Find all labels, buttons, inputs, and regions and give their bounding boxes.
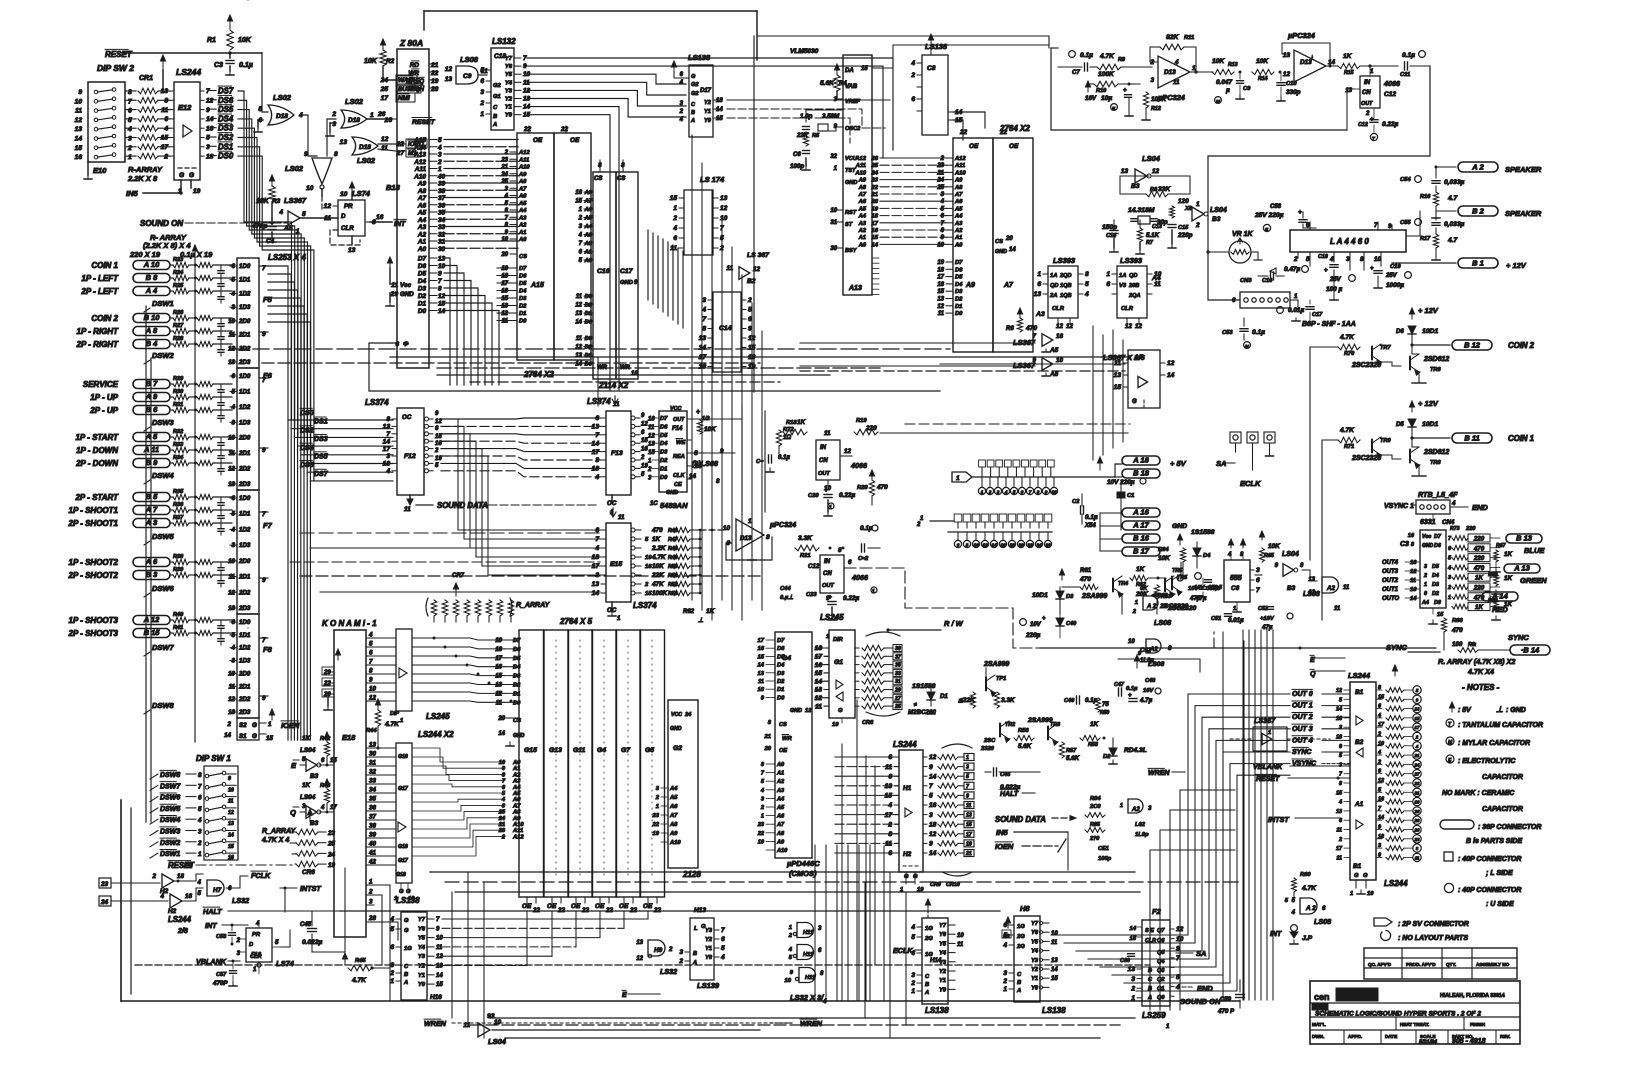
ic 4066 top	[1345, 66, 1401, 108]
ic ROM A9 A7 2764x2	[936, 129, 1033, 352]
svg-text:8: 8	[716, 478, 720, 485]
resistor R44 real	[247, 0, 249, 1]
wire c8 outputs	[953, 112, 985, 140]
svg-text:0.1µ: 0.1µ	[1085, 697, 1098, 704]
svg-text:29: 29	[390, 291, 399, 298]
svg-text:9: 9	[929, 841, 933, 848]
svg-text:RTB_L5_4F: RTB_L5_4F	[1418, 490, 1458, 499]
ic Z80 iorq m1	[396, 139, 427, 157]
svg-text:: 40P CONNECTOR: : 40P CONNECTOR	[1458, 856, 1521, 863]
resistor R6 470	[1006, 308, 1037, 332]
svg-text:B3: B3	[310, 820, 319, 827]
svg-text:4: 4	[197, 817, 202, 824]
svg-text:GND: GND	[790, 708, 802, 714]
ic G18 G17 LS244x2	[394, 743, 415, 902]
svg-text:A6: A6	[518, 194, 527, 200]
svg-text:23: 23	[936, 163, 944, 169]
svg-text:A12: A12	[413, 159, 426, 166]
svg-text:11: 11	[938, 311, 945, 317]
svg-text:Y3: Y3	[418, 954, 426, 960]
svg-text:F12: F12	[404, 453, 416, 460]
svg-text:A7: A7	[518, 186, 527, 192]
svg-text:38: 38	[369, 823, 376, 830]
wire rom1 data stubs	[497, 268, 510, 321]
svg-text:14: 14	[592, 440, 600, 447]
svg-text:C12: C12	[808, 563, 820, 570]
wire bottom horizontals 2	[470, 1018, 1135, 1038]
svg-text:15: 15	[758, 654, 765, 660]
svg-text:6: 6	[128, 108, 132, 115]
svg-text:19: 19	[832, 722, 839, 728]
svg-text:LS244: LS244	[1348, 671, 1371, 680]
svg-text:LS139: LS139	[697, 981, 720, 990]
svg-text:A4: A4	[1421, 600, 1429, 606]
svg-text:10: 10	[720, 215, 728, 222]
svg-text:26: 26	[871, 156, 879, 162]
svg-text:0,033µ: 0,033µ	[1444, 221, 1465, 228]
svg-text:D6: D6	[519, 274, 527, 280]
svg-text:1P - RIGHT: 1P - RIGHT	[77, 327, 120, 336]
svg-text:12: 12	[929, 831, 937, 838]
svg-text:L62: L62	[1135, 822, 1146, 828]
svg-text:A12: A12	[512, 834, 524, 840]
ic F7 LS253	[228, 490, 272, 614]
svg-text:4: 4	[320, 805, 325, 811]
svg-text:18: 18	[177, 873, 184, 880]
label LS02 a	[273, 93, 292, 102]
svg-text:A2: A2	[954, 228, 963, 234]
svg-text:4066: 4066	[850, 461, 868, 470]
wire top right link	[754, 36, 1049, 392]
svg-text:17: 17	[592, 449, 600, 456]
svg-text:A: A	[403, 980, 408, 986]
svg-text:A11: A11	[414, 166, 427, 173]
net INTST a	[280, 884, 321, 912]
ic Z80 power	[386, 257, 414, 306]
svg-text:G4: G4	[597, 747, 606, 754]
svg-text:4: 4	[1004, 490, 1008, 495]
svg-text:4.7K: 4.7K	[1339, 334, 1355, 341]
svg-text:A 4: A 4	[145, 286, 158, 295]
svg-text:OUT 4: OUT 4	[1292, 737, 1313, 744]
svg-text:12: 12	[495, 691, 502, 697]
svg-text:G: G	[913, 874, 918, 880]
svg-text:12: 12	[1283, 71, 1291, 78]
resistor R18	[783, 419, 807, 435]
capacitor C23	[806, 587, 877, 620]
svg-text:14: 14	[383, 438, 391, 445]
svg-text:: TANTALUM CAPACITOR: : TANTALUM CAPACITOR	[1458, 722, 1543, 729]
svg-text:20: 20	[323, 692, 331, 698]
svg-text:DSW5: DSW5	[160, 806, 180, 813]
svg-text:C17: C17	[620, 268, 634, 275]
svg-text:VR 1K: VR 1K	[1232, 231, 1254, 238]
svg-text:: GND: : GND	[1506, 707, 1526, 714]
resistor array CR1	[138, 55, 170, 159]
svg-text:IN: IN	[820, 445, 827, 451]
svg-text:A4: A4	[858, 214, 867, 220]
svg-text:10D1: 10D1	[1422, 421, 1438, 428]
svg-text:A5: A5	[776, 805, 785, 811]
svg-text:LS138: LS138	[1042, 1006, 1066, 1015]
svg-text:15: 15	[1336, 790, 1343, 796]
svg-text:A1: A1	[776, 771, 784, 777]
svg-text:R61: R61	[1080, 568, 1092, 574]
resistor fan CR8	[862, 632, 902, 726]
svg-text:13: 13	[592, 581, 600, 588]
svg-text:LS08: LS08	[1148, 661, 1164, 668]
svg-text:10: 10	[369, 686, 376, 693]
svg-text:5: 5	[258, 106, 262, 113]
gate B3 inv e	[291, 747, 337, 780]
svg-text:2: 2	[940, 156, 945, 162]
svg-text:1P - DOWN: 1P - DOWN	[76, 446, 118, 455]
wire e15 band	[290, 533, 600, 592]
svg-text:19: 19	[653, 831, 660, 837]
svg-text:WR: WR	[782, 736, 792, 742]
svg-text:CN: CN	[1362, 90, 1371, 96]
label note 40p U	[1444, 883, 1521, 894]
svg-text:A2: A2	[858, 228, 867, 234]
svg-text:RESET: RESET	[1256, 776, 1280, 783]
net RESET right	[1256, 774, 1350, 783]
svg-text:19: 19	[872, 206, 879, 212]
svg-text:15: 15	[1378, 694, 1385, 700]
svg-text:A4: A4	[1151, 275, 1161, 282]
svg-text:LS08: LS08	[1314, 917, 1331, 926]
net RESET top	[105, 49, 262, 59]
svg-text:4066: 4066	[1383, 79, 1401, 88]
svg-text:13: 13	[1114, 372, 1122, 379]
svg-text:1: 1	[872, 589, 875, 595]
wire f12 to e15	[441, 419, 604, 575]
svg-text:G15: G15	[524, 747, 537, 754]
svg-text:LS138: LS138	[925, 42, 948, 51]
svg-text:S2: S2	[239, 722, 247, 729]
svg-text:6: 6	[848, 559, 852, 566]
svg-text:4: 4	[437, 144, 442, 151]
svg-text:A14: A14	[413, 144, 426, 151]
svg-text:GND: GND	[400, 291, 414, 298]
svg-text:19: 19	[193, 188, 201, 195]
svg-text:13: 13	[161, 88, 169, 95]
svg-text:10: 10	[937, 242, 944, 248]
svg-text:21: 21	[764, 734, 771, 740]
svg-text:220 X 19: 220 X 19	[129, 250, 161, 259]
svg-text:A 8: A 8	[145, 326, 158, 335]
svg-text:20: 20	[1005, 236, 1013, 242]
svg-text:4: 4	[679, 117, 684, 123]
svg-text:6: 6	[888, 754, 892, 761]
svg-text:16V: 16V	[1143, 688, 1154, 694]
svg-text:RESET: RESET	[412, 119, 436, 126]
svg-text:C48: C48	[1145, 678, 1156, 684]
svg-text:D1: D1	[940, 694, 948, 700]
svg-text:15: 15	[716, 116, 723, 122]
svg-text:22: 22	[523, 126, 532, 133]
svg-text:4.7K: 4.7K	[1301, 885, 1317, 892]
gate H11 c	[785, 968, 824, 985]
svg-text:15: 15	[1437, 612, 1444, 618]
capacitor C4	[251, 218, 276, 245]
svg-text:4: 4	[278, 209, 283, 216]
resistor R65b	[1259, 531, 1298, 562]
svg-text:Y5: Y5	[418, 936, 426, 942]
svg-text:5.1K: 5.1K	[1146, 232, 1160, 239]
svg-text:8: 8	[369, 668, 373, 675]
svg-text:C46: C46	[1064, 698, 1075, 704]
svg-text:4.7K: 4.7K	[1099, 53, 1115, 60]
svg-text:11: 11	[824, 430, 831, 437]
capacitor C19	[1370, 264, 1411, 289]
svg-text:34: 34	[438, 217, 446, 224]
label LS374 f13	[587, 397, 611, 406]
connector B1 12v	[1392, 252, 1527, 270]
gate H2 buf a	[152, 873, 203, 895]
label DIP SW1	[196, 754, 231, 763]
wire bundle left mid	[120, 776, 122, 800]
svg-text:12: 12	[648, 433, 655, 439]
net INTST right	[1268, 815, 1340, 824]
svg-text:19: 19	[758, 839, 765, 845]
svg-text:1D2: 1D2	[239, 645, 251, 652]
connector input 2P - START	[74, 489, 232, 502]
svg-text:R32: R32	[173, 429, 184, 435]
svg-text:Vcc: Vcc	[1422, 534, 1431, 540]
svg-text:A7: A7	[417, 195, 427, 202]
svg-text:DA: DA	[845, 68, 854, 74]
svg-text:14: 14	[498, 731, 505, 737]
svg-text:2D3: 2D3	[238, 359, 251, 366]
svg-text:2: 2	[679, 109, 684, 115]
svg-text:3: 3	[390, 962, 394, 969]
svg-text:R34: R34	[173, 455, 184, 461]
label note 2p	[1374, 918, 1469, 928]
svg-text:+: +	[696, 409, 700, 416]
svg-text:1P - SHOOT3: 1P - SHOOT3	[69, 616, 119, 625]
svg-text:B 6: B 6	[146, 405, 159, 414]
svg-text:D5: D5	[1432, 564, 1440, 570]
ic E15 LS374	[592, 508, 641, 622]
svg-text:18: 18	[1009, 543, 1015, 548]
wire f16b out	[281, 930, 290, 947]
svg-text:(2.2K X 8) X 4: (2.2K X 8) X 4	[143, 241, 191, 250]
svg-text:40: 40	[368, 841, 376, 848]
svg-text:16: 16	[575, 190, 582, 196]
svg-text:µPC324: µPC324	[1287, 31, 1315, 40]
wire rom row verticals	[556, 640, 652, 880]
svg-text:J.P: J.P	[1302, 935, 1313, 942]
svg-text:CLR: CLR	[1121, 306, 1134, 312]
svg-text:10: 10	[785, 978, 792, 984]
svg-text:G18: G18	[398, 844, 408, 850]
resistor R13	[1212, 58, 1242, 75]
svg-text:LS08: LS08	[1303, 591, 1320, 598]
ic F16 LS74	[324, 182, 407, 254]
svg-text:23: 23	[1414, 837, 1420, 842]
label LS132	[492, 37, 516, 46]
svg-text:A7: A7	[584, 199, 593, 205]
connector input 1P - SHOOT3	[69, 612, 233, 625]
svg-text:A7: A7	[954, 192, 963, 198]
svg-text:1QB: 1QB	[1060, 293, 1072, 299]
svg-text:9: 9	[304, 151, 308, 158]
svg-text:GND: GND	[513, 733, 525, 739]
svg-text:10: 10	[957, 933, 964, 939]
wire +5 rail	[1040, 457, 1122, 477]
svg-text:SOUND DATA: SOUND DATA	[995, 815, 1046, 824]
wire H1 left addr	[835, 757, 899, 853]
svg-text:6: 6	[1037, 281, 1041, 288]
svg-text:5: 5	[198, 890, 202, 897]
svg-text:13: 13	[1283, 52, 1291, 59]
connector B13	[1506, 533, 1545, 555]
svg-text:12: 12	[1336, 688, 1342, 694]
svg-text:26: 26	[1414, 809, 1420, 814]
svg-text:2G: 2G	[1016, 934, 1025, 940]
transistor TR5b	[1167, 562, 1197, 612]
ic 4066 c12c	[808, 547, 869, 602]
svg-text:µPC324: µPC324	[769, 520, 796, 529]
svg-text:0,033µ: 0,033µ	[1444, 179, 1465, 186]
svg-text:B6P - SHF - 1AA: B6P - SHF - 1AA	[1302, 321, 1356, 328]
svg-text:E18: E18	[342, 733, 356, 742]
svg-text:A7: A7	[669, 813, 678, 819]
svg-text:D3: D3	[660, 450, 668, 456]
svg-text:R24: R24	[173, 270, 184, 276]
svg-text:D0: D0	[1434, 600, 1441, 606]
ic E12 LS244	[161, 82, 214, 195]
svg-text:Y1: Y1	[704, 109, 711, 115]
svg-text:LS02: LS02	[285, 164, 304, 173]
svg-text:33: 33	[438, 224, 446, 231]
svg-text:100K: 100K	[1098, 71, 1115, 78]
svg-text:A1: A1	[584, 250, 592, 256]
svg-text:VREF: VREF	[845, 99, 861, 105]
svg-text:13: 13	[636, 940, 643, 946]
svg-text:10K: 10K	[256, 198, 270, 205]
svg-text:LS245: LS245	[820, 613, 844, 622]
svg-text:LS253 X 4: LS253 X 4	[268, 253, 306, 262]
ic Z80 top right pins	[406, 61, 439, 93]
svg-text:B 8: B 8	[146, 273, 159, 282]
svg-text:10: 10	[830, 208, 837, 214]
svg-text:C≈2: C≈2	[858, 556, 869, 562]
svg-text:31: 31	[830, 220, 837, 226]
svg-text:12: 12	[982, 543, 988, 548]
svg-text:2: 2	[1377, 759, 1381, 765]
svg-text:2128: 2128	[682, 870, 701, 879]
svg-text:Y1: Y1	[939, 978, 946, 984]
ic D17 LS138	[671, 61, 723, 137]
svg-text:5: 5	[438, 137, 442, 144]
svg-text:11: 11	[161, 107, 168, 114]
switch DIP SW2	[75, 82, 136, 162]
svg-text:B1: B1	[1355, 689, 1364, 696]
svg-text:7: 7	[206, 88, 210, 95]
wire C18 outputs	[527, 58, 893, 390]
svg-text:R4: R4	[839, 81, 847, 87]
svg-text:1: 1	[966, 755, 969, 761]
svg-text:34: 34	[369, 787, 376, 794]
svg-text:R38: R38	[173, 554, 184, 560]
svg-text:A6: A6	[954, 199, 963, 205]
svg-text:A6: A6	[417, 202, 427, 209]
diode D1	[908, 683, 948, 716]
label uPD446C	[786, 859, 820, 878]
svg-text:A 18: A 18	[1132, 455, 1149, 464]
net SA b	[1176, 949, 1206, 958]
svg-text:2G: 2G	[1016, 944, 1025, 950]
svg-text:10: 10	[1051, 490, 1057, 495]
svg-text:23: 23	[652, 813, 660, 819]
wire mid band 1	[232, 348, 950, 350]
svg-text:REV.: REV.	[1500, 1034, 1510, 1039]
svg-text:11: 11	[618, 514, 625, 521]
svg-text:TR8: TR8	[1430, 460, 1441, 466]
svg-text:R6: R6	[1006, 326, 1014, 332]
svg-text:C44: C44	[780, 586, 791, 592]
svg-text:B3: B3	[1212, 216, 1221, 223]
svg-text:4.7K: 4.7K	[384, 721, 400, 728]
svg-text:Y4: Y4	[1031, 949, 1039, 955]
svg-text:4: 4	[720, 954, 725, 961]
wire amp top link	[1206, 210, 1436, 300]
svg-text:13: 13	[445, 76, 453, 83]
svg-text:22: 22	[323, 681, 331, 687]
svg-text:11: 11	[228, 799, 233, 805]
diode D2	[1103, 738, 1147, 764]
svg-text:32: 32	[830, 154, 837, 160]
svg-text:3: 3	[1150, 77, 1154, 84]
capacitor C56	[1254, 204, 1330, 232]
svg-text:10µ: 10µ	[1101, 95, 1112, 102]
svg-text:15: 15	[435, 434, 442, 440]
svg-text:1: 1	[128, 154, 132, 161]
svg-text:R31: R31	[173, 402, 183, 408]
svg-text:11: 11	[1173, 79, 1180, 86]
svg-text:D0: D0	[513, 700, 521, 706]
svg-text:G2: G2	[691, 82, 699, 88]
label LS393 b	[1120, 256, 1143, 265]
svg-text:11: 11	[436, 945, 443, 951]
svg-text:1: 1	[1448, 595, 1451, 601]
svg-text:CLR: CLR	[341, 225, 354, 232]
svg-text:Q0: Q0	[1157, 995, 1165, 1001]
svg-text:8: 8	[888, 831, 892, 838]
svg-text:LS74: LS74	[276, 959, 295, 968]
connector A16	[1122, 507, 1160, 517]
svg-text:16: 16	[435, 441, 442, 447]
svg-text:A5: A5	[858, 206, 867, 212]
svg-text:13: 13	[1034, 291, 1042, 298]
svg-text:2: 2	[227, 721, 232, 728]
svg-text:13: 13	[1415, 707, 1420, 712]
svg-text:IN5: IN5	[126, 189, 139, 198]
svg-text:37: 37	[438, 195, 446, 202]
svg-text:9: 9	[1045, 490, 1048, 495]
svg-text:D5: D5	[513, 656, 521, 662]
svg-text:TR9: TR9	[1380, 438, 1391, 444]
svg-text:2QA: 2QA	[1128, 293, 1141, 299]
svg-text:A8: A8	[776, 831, 785, 837]
diode D3	[1032, 587, 1074, 614]
svg-text:1P - LEFT: 1P - LEFT	[81, 274, 119, 283]
svg-text:21: 21	[1414, 753, 1420, 758]
svg-text:(9)LS08: (9)LS08	[692, 459, 718, 468]
svg-text:1D2: 1D2	[239, 404, 251, 411]
svg-text:10: 10	[1410, 587, 1417, 593]
